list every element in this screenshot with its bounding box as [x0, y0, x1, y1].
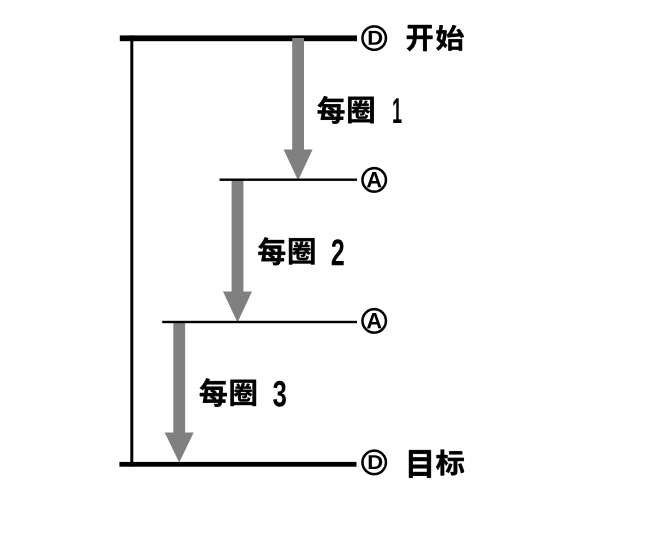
label 开始 (start)	[407, 25, 464, 51]
label 每圈 1 (per lap 1)	[318, 96, 402, 124]
arrow: lap 2 descent	[223, 180, 252, 323]
label 每圈 2 (per lap 2)	[258, 237, 344, 265]
arrow: lap 3 descent	[165, 322, 194, 463]
label 目标 (goal)	[409, 450, 464, 478]
wire: top rail (start level)	[120, 35, 357, 41]
arrow: lap 1 descent	[284, 38, 313, 181]
node A (level after lap 1)	[362, 168, 386, 192]
node A (level after lap 2)	[362, 309, 386, 333]
wire: level A after lap 2	[162, 321, 357, 323]
label 每圈 3 (per lap 3)	[200, 378, 286, 407]
node D (goal depth)	[362, 451, 386, 475]
wire: bottom rail (goal level)	[119, 462, 356, 467]
wire: level A after lap 1	[220, 179, 358, 181]
node D (start depth)	[362, 26, 386, 50]
wire: left vertical rail	[130, 35, 133, 466]
